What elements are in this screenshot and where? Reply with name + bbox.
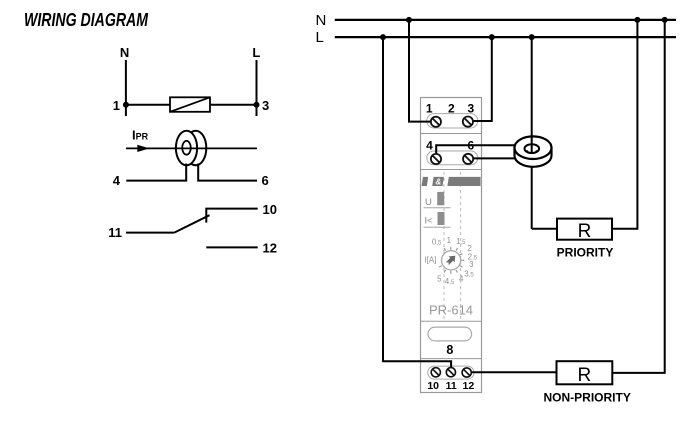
screw terminal 6 [463,154,473,164]
terminal block 1-2-3 [426,102,478,129]
svg-text:5: 5 [437,274,442,283]
wire L lead [256,60,258,116]
wire N to terminal 1 [409,20,432,122]
junction N-409 [406,17,412,23]
terminal 1 [123,102,129,108]
svg-text:&: & [436,177,442,186]
bottom terminal rounded rect [428,366,474,379]
junction L-492 [489,34,495,40]
svg-text:PRIORITY: PRIORITY [557,246,614,260]
svg-text:12: 12 [263,240,277,255]
wire L to terminal 11 [383,37,451,368]
svg-text:L: L [316,29,324,46]
relay module PR-614 body [421,98,482,393]
svg-text:IPR: IPR [132,128,149,143]
svg-text:4: 4 [113,173,121,188]
LED U [424,192,451,208]
svg-text:11: 11 [446,380,457,392]
wire priority load to N [612,20,637,229]
svg-text:R: R [578,365,592,386]
svg-text:4: 4 [459,274,464,283]
wire terminal 12 to non-priority load [467,371,557,373]
switch moving arm [174,215,209,232]
svg-text:I[A]: I[A] [424,256,436,265]
current transformer CT2 (right toroid) [515,136,552,167]
labels 10 11 12 [427,380,474,392]
load R non-priority [557,361,613,386]
svg-text:6: 6 [262,173,269,188]
screw terminal 4 [431,154,441,164]
svg-text:12: 12 [463,380,475,392]
relay coil K1 [170,97,210,112]
svg-text:R: R [578,221,592,242]
svg-text:8: 8 [446,343,453,357]
junction L-383 [380,34,386,40]
svg-text:N: N [316,12,327,29]
wire from 11 [126,232,174,234]
svg-text:N: N [120,45,129,60]
svg-text:WIRING DIAGRAM: WIRING DIAGRAM [24,10,149,30]
wire to 10 with contact stub [206,209,257,223]
svg-text:3: 3 [468,102,475,116]
svg-text:2: 2 [448,102,455,116]
svg-text:4: 4 [426,139,433,153]
svg-text:I<: I< [425,216,434,227]
svg-text:1: 1 [113,98,120,113]
wire to 12 [206,246,257,248]
screw terminal 12 [462,368,471,377]
front panel dashed guides [444,172,461,320]
LED I< [424,212,451,227]
svg-text:10: 10 [427,380,439,392]
svg-text:1: 1 [447,236,452,245]
screw terminal 11 [446,368,455,377]
screw terminal 10 [431,368,440,377]
svg-text:11: 11 [108,225,122,240]
junction L-531 [529,34,535,40]
svg-text:U: U [425,197,432,208]
wire terminal 6 to CT2 [468,157,520,159]
svg-text:1: 1 [426,102,433,116]
svg-text:PR-614: PR-614 [429,303,473,318]
terminal block 4-6 [426,139,478,165]
junction N-637 [634,17,640,23]
wire terminal 4 to CT2 [436,145,516,155]
terminal 3 [254,102,260,108]
button [428,327,472,341]
wire 1 to coil [126,104,170,106]
wire non-priority load to N [612,20,664,373]
svg-text:10: 10 [263,202,277,217]
wire coil to 3 [210,104,257,106]
wire L through CT2 to priority load [531,37,533,139]
wire N lead [125,60,127,116]
screw terminal 1 [431,117,441,127]
svg-text:3: 3 [262,98,269,113]
screw terminal 3 [463,117,473,127]
F&F logo band [422,177,481,187]
svg-text:3: 3 [469,260,474,269]
wire CT1 secondary lead right [198,164,257,181]
wire primary through CT1 with arrow [126,145,257,152]
current transformer CT1 (left toroid) [176,131,206,166]
rotary switch I[A] [424,236,477,286]
junction N-664 [662,17,668,23]
load R priority [557,219,612,242]
svg-text:NON-PRIORITY: NON-PRIORITY [544,391,631,405]
svg-text:L: L [252,45,260,60]
wire L to terminal 3 [473,37,492,121]
wire CT1 secondary lead left [126,164,186,181]
